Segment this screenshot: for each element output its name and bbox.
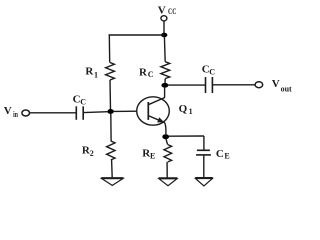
capacitor CC (output): [205, 77, 207, 93]
wire CE top lead: [203, 136, 205, 150]
wire emitter lead: [165, 123, 166, 134]
wire output: [168, 84, 206, 86]
wire R2 bottom lead: [111, 160, 114, 178]
wire to Vout: [213, 84, 255, 86]
node Vcc junction: [161, 33, 167, 38]
svg-text:C: C: [209, 67, 215, 76]
wire Vcc lead: [163, 21, 165, 33]
resistor R1: [106, 63, 115, 81]
ground (below CE): [195, 178, 213, 186]
ground (below R2): [101, 178, 123, 185]
svg-text:in: in: [13, 110, 18, 119]
svg-text:V: V: [158, 5, 166, 17]
wire collector stub: [164, 87, 166, 98]
wire CE bottom lead: [203, 156, 205, 178]
svg-text:C: C: [216, 148, 224, 160]
svg-text:E: E: [224, 151, 229, 160]
transistor Q1: [137, 97, 170, 125]
node collector junction: [161, 83, 168, 88]
wire RC bottom lead: [164, 79, 166, 85]
resistor RC: [161, 62, 170, 79]
svg-text:2: 2: [90, 149, 94, 158]
svg-text:1: 1: [189, 107, 193, 116]
wire top rail: [109, 34, 164, 36]
svg-text:E: E: [150, 151, 155, 160]
svg-text:V: V: [4, 105, 12, 117]
svg-text:C: C: [148, 70, 154, 79]
wire RE top lead: [166, 139, 168, 145]
wire RE bottom lead: [166, 162, 168, 178]
wire R1 bottom lead: [109, 80, 112, 110]
svg-text:C: C: [80, 97, 86, 106]
Vcc terminal: [161, 16, 167, 21]
wire input: [30, 112, 76, 114]
svg-text:R: R: [139, 67, 148, 79]
capacitor CC (input): [75, 106, 77, 120]
svg-text:V: V: [272, 78, 280, 90]
resistor R2: [107, 141, 115, 160]
svg-text:out: out: [281, 85, 292, 94]
Vout terminal: [255, 82, 263, 88]
resistor RE: [164, 145, 172, 162]
wire R2 top lead: [110, 114, 112, 141]
svg-text:Q: Q: [179, 103, 188, 115]
Vin terminal: [22, 110, 30, 116]
wire capacitor to base node: [84, 111, 108, 114]
wire emitter to CE: [169, 135, 204, 137]
wire R1 top lead: [108, 34, 110, 62]
ground (below RE): [159, 178, 178, 186]
svg-text:1: 1: [94, 70, 98, 79]
wire base: [114, 110, 138, 112]
svg-text:CC: CC: [168, 7, 177, 16]
wire RC top lead: [163, 37, 166, 62]
node base junction: [107, 109, 113, 114]
capacitor CE: [197, 149, 210, 151]
node emitter junction: [162, 134, 169, 139]
